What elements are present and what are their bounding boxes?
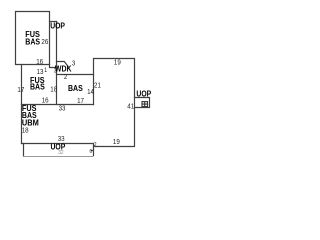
area outline: right BAS wing	[94, 59, 135, 147]
svg-text:BAS: BAS	[30, 82, 45, 92]
svg-text:18: 18	[50, 85, 57, 94]
svg-text:21: 21	[94, 81, 101, 90]
svg-text:14: 14	[87, 87, 94, 96]
svg-text:41: 41	[127, 101, 134, 110]
step jog below upper building	[50, 65, 57, 68]
svg-text:26: 26	[41, 37, 48, 46]
west wall of middle and lower sections	[21, 65, 23, 144]
stoop glyph	[142, 102, 148, 107]
svg-text:BAS: BAS	[25, 36, 40, 46]
svg-text:1: 1	[44, 67, 47, 74]
svg-text:18: 18	[22, 125, 29, 134]
svg-text:33: 33	[59, 104, 66, 113]
svg-text:2: 2	[94, 142, 97, 148]
svg-text:16: 16	[42, 95, 49, 104]
area outline: upper-left FUS/BAS building	[16, 12, 50, 65]
divider line under WDK	[57, 74, 94, 76]
svg-text:UOP: UOP	[136, 88, 151, 98]
svg-text:19: 19	[114, 57, 121, 66]
WDK deck outline	[57, 62, 69, 68]
svg-text:UOP: UOP	[50, 20, 65, 30]
bottom UOP porch: gray bottom edge	[24, 156, 94, 158]
svg-text:6: 6	[90, 149, 93, 155]
svg-text:2: 2	[64, 72, 67, 81]
svg-text:17: 17	[77, 96, 84, 105]
interior line: top of lower FUS/BAS/UBM section	[22, 104, 94, 106]
bottom UOP porch: top edge and right jog	[22, 144, 94, 150]
bottom UOP porch: right step ticks	[92, 151, 94, 156]
svg-text:17: 17	[17, 85, 24, 94]
svg-text:16: 16	[36, 57, 43, 66]
svg-text:BAS: BAS	[68, 83, 83, 93]
svg-text:32: 32	[58, 150, 63, 156]
svg-text:3: 3	[72, 58, 75, 67]
svg-text:19: 19	[113, 137, 120, 146]
bottom UOP porch: left edge	[23, 144, 25, 157]
east edge of UOP side porch / section divider	[56, 22, 58, 105]
right UOP stoop box	[135, 98, 150, 108]
top tick of UOP side porch	[50, 21, 57, 23]
